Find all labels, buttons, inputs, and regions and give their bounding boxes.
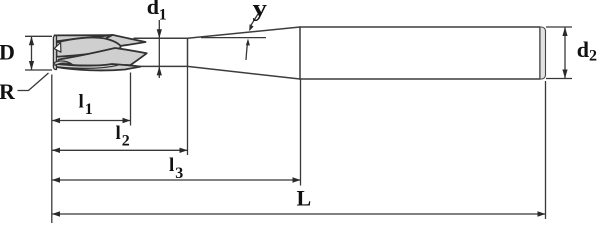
- y leader lower: [246, 43, 248, 60]
- d2 bottom extension line: [546, 78, 572, 80]
- d1 arrow up (outside bottom): [157, 66, 162, 75]
- wire shank top line: [300, 26, 540, 28]
- cutter head: [53, 35, 146, 71]
- d2 arrow down: [562, 70, 567, 79]
- svg-text:3: 3: [175, 165, 183, 182]
- svg-text:D: D: [0, 40, 15, 65]
- l3 arrow left: [52, 177, 60, 182]
- flute middle wedge: [58, 48, 147, 66]
- l3 arrow right: [293, 177, 301, 182]
- flute scallop line: [58, 65, 118, 68]
- node l2 extension line: [187, 66, 189, 155]
- wire shank end inner edge: [539, 28, 541, 79]
- arrowheads: [29, 24, 568, 216]
- flute top band: [55, 35, 113, 41]
- wire shank bottom line: [300, 78, 540, 80]
- svg-text:l: l: [169, 155, 174, 176]
- center point tooth: [54, 43, 61, 53]
- svg-text:2: 2: [589, 47, 597, 64]
- wire taper bottom line: [188, 66, 301, 79]
- L arrow left: [52, 211, 60, 216]
- flute big leaf: [56, 38, 120, 57]
- y leader upper: [251, 14, 259, 26]
- l1 arrow right: [123, 118, 131, 123]
- d1 dimension line: [158, 20, 160, 78]
- D arrow up: [29, 36, 34, 45]
- node L extension line: [545, 81, 547, 219]
- wire taper top line: [188, 27, 301, 38]
- l1 dimension line: [52, 120, 131, 122]
- d2 top extension line: [546, 26, 572, 28]
- y lower arrowhead: [246, 39, 250, 46]
- D bottom extension line: [25, 69, 52, 71]
- svg-text:l: l: [79, 92, 84, 113]
- svg-text:d: d: [577, 37, 589, 62]
- l1 arrow left: [52, 118, 60, 123]
- svg-text:y: y: [253, 0, 268, 22]
- node l1 extension line: [130, 73, 132, 126]
- wire neck top line: [134, 37, 188, 39]
- D dimension line: [31, 37, 33, 70]
- svg-text:d: d: [147, 0, 159, 19]
- svg-text:1: 1: [85, 101, 93, 118]
- y upper arrowhead: [249, 24, 253, 31]
- d1 arrow down (outside top): [157, 29, 162, 38]
- L dimension line: [52, 213, 546, 215]
- svg-text:2: 2: [122, 133, 130, 150]
- node l3 extension line: [300, 79, 302, 186]
- D arrow down: [29, 61, 34, 70]
- l2 dimension line: [52, 149, 188, 151]
- l2 arrow left: [52, 148, 60, 153]
- l2 arrow right: [180, 148, 188, 153]
- y reference line: [201, 37, 266, 39]
- wire neck-taper junction: [187, 38, 189, 66]
- d2 arrow up: [562, 27, 567, 36]
- svg-text:L: L: [297, 186, 312, 211]
- wire neck bottom line: [134, 65, 188, 67]
- flute bottom band: [55, 64, 141, 71]
- svg-text:R: R: [0, 79, 16, 104]
- svg-text:1: 1: [159, 7, 167, 24]
- R leader: [18, 73, 49, 91]
- wire taper-shank junction: [299, 27, 301, 79]
- l3 dimension line: [52, 179, 301, 181]
- flute upper-right wedge: [106, 35, 146, 46]
- corner radius detail: [55, 61, 73, 65]
- svg-text:l: l: [116, 123, 121, 144]
- shank end cap: [540, 27, 546, 79]
- d2 dimension line: [564, 28, 566, 79]
- D top extension line: [25, 35, 52, 37]
- end face: [53, 36, 56, 70]
- L arrow right: [538, 211, 546, 216]
- node left extension line: [51, 75, 53, 224]
